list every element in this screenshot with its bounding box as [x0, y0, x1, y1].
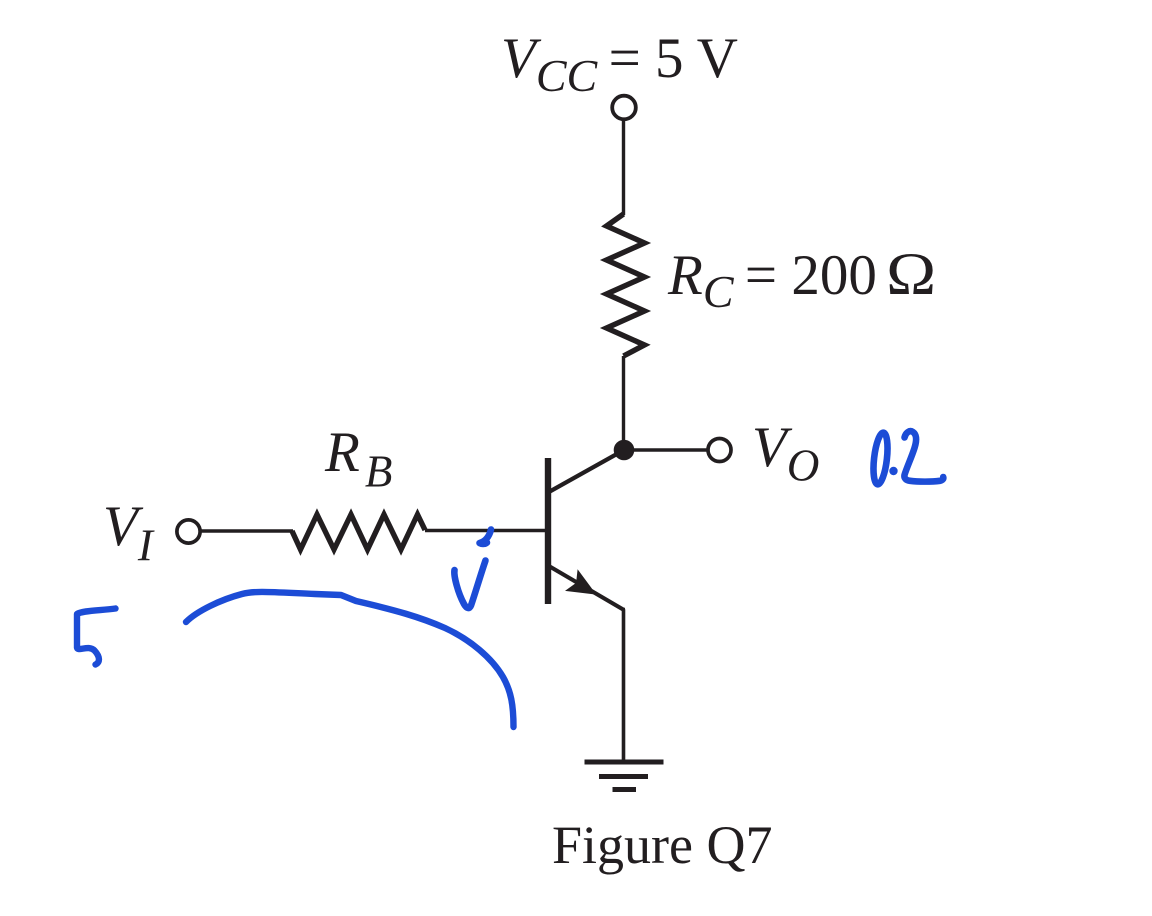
transistor Q1 emitter arrow — [565, 569, 596, 594]
wire node to VO terminal — [630, 448, 708, 452]
transistor Q1 collector lead — [548, 450, 624, 493]
svg-text:RC = 200 Ω: RC = 200 Ω — [667, 241, 936, 317]
terminal VO — [708, 439, 731, 462]
ground symbol — [585, 762, 664, 790]
annotation blue 5 — [77, 609, 116, 665]
svg-text:VI: VI — [103, 495, 155, 571]
resistor RC — [607, 214, 645, 356]
terminal VI — [177, 520, 200, 543]
wire RC to collector node — [622, 356, 625, 444]
transistor Q1 base bar — [545, 458, 551, 604]
wire VI to RB — [200, 529, 293, 532]
svg-text:Figure Q7: Figure Q7 — [552, 815, 772, 875]
svg-text:VO: VO — [752, 416, 819, 491]
svg-text:RB: RB — [324, 421, 392, 497]
svg-text:VCC = 5 V: VCC = 5 V — [501, 27, 738, 101]
wire emitter to ground — [621, 608, 625, 762]
junction node collector — [614, 440, 635, 461]
terminal VCC — [612, 96, 636, 120]
resistor RB — [292, 515, 425, 550]
transistor Q1 emitter lead — [548, 566, 624, 611]
annotation blue 0.2 — [871, 431, 943, 485]
annotation blue curve — [186, 592, 514, 727]
wire VCC to RC — [622, 120, 625, 215]
annotation blue check mark — [454, 530, 491, 609]
wire RB to base — [425, 529, 545, 532]
